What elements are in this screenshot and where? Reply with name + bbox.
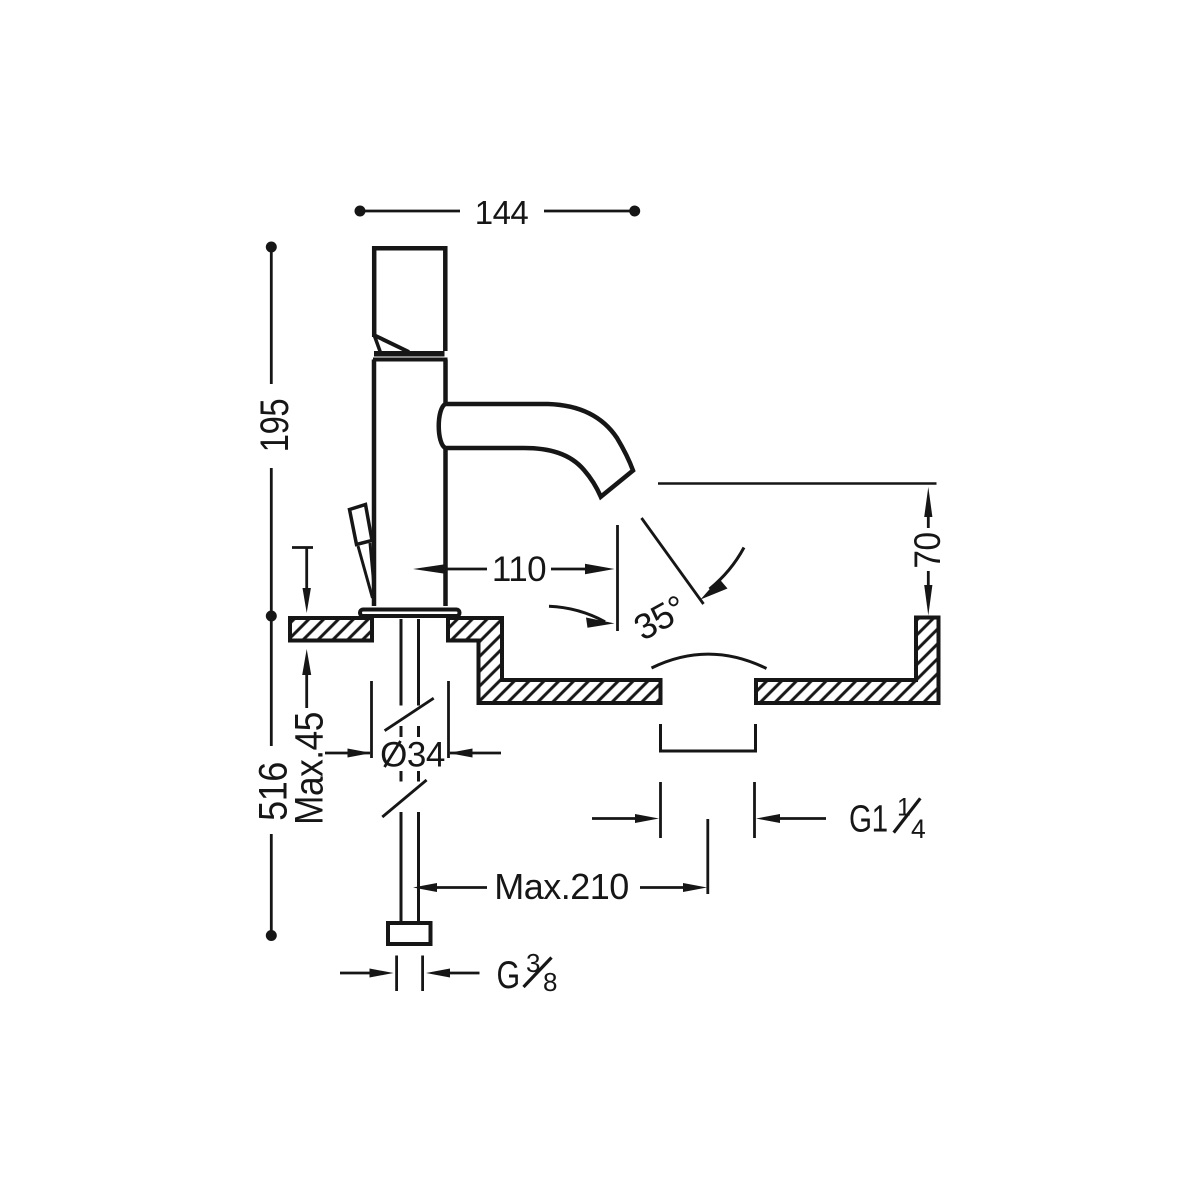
- svg-text:110: 110: [492, 550, 546, 589]
- svg-text:4: 4: [911, 814, 925, 844]
- svg-text:G: G: [497, 953, 520, 996]
- svg-text:70: 70: [907, 532, 948, 568]
- svg-text:144: 144: [475, 194, 529, 231]
- svg-text:Max.210: Max.210: [494, 866, 629, 907]
- svg-text:G1: G1: [849, 798, 888, 840]
- svg-text:195: 195: [252, 399, 297, 452]
- svg-text:Max.45: Max.45: [286, 712, 331, 825]
- svg-text:8: 8: [543, 967, 557, 997]
- svg-text:O34: O34: [380, 736, 445, 775]
